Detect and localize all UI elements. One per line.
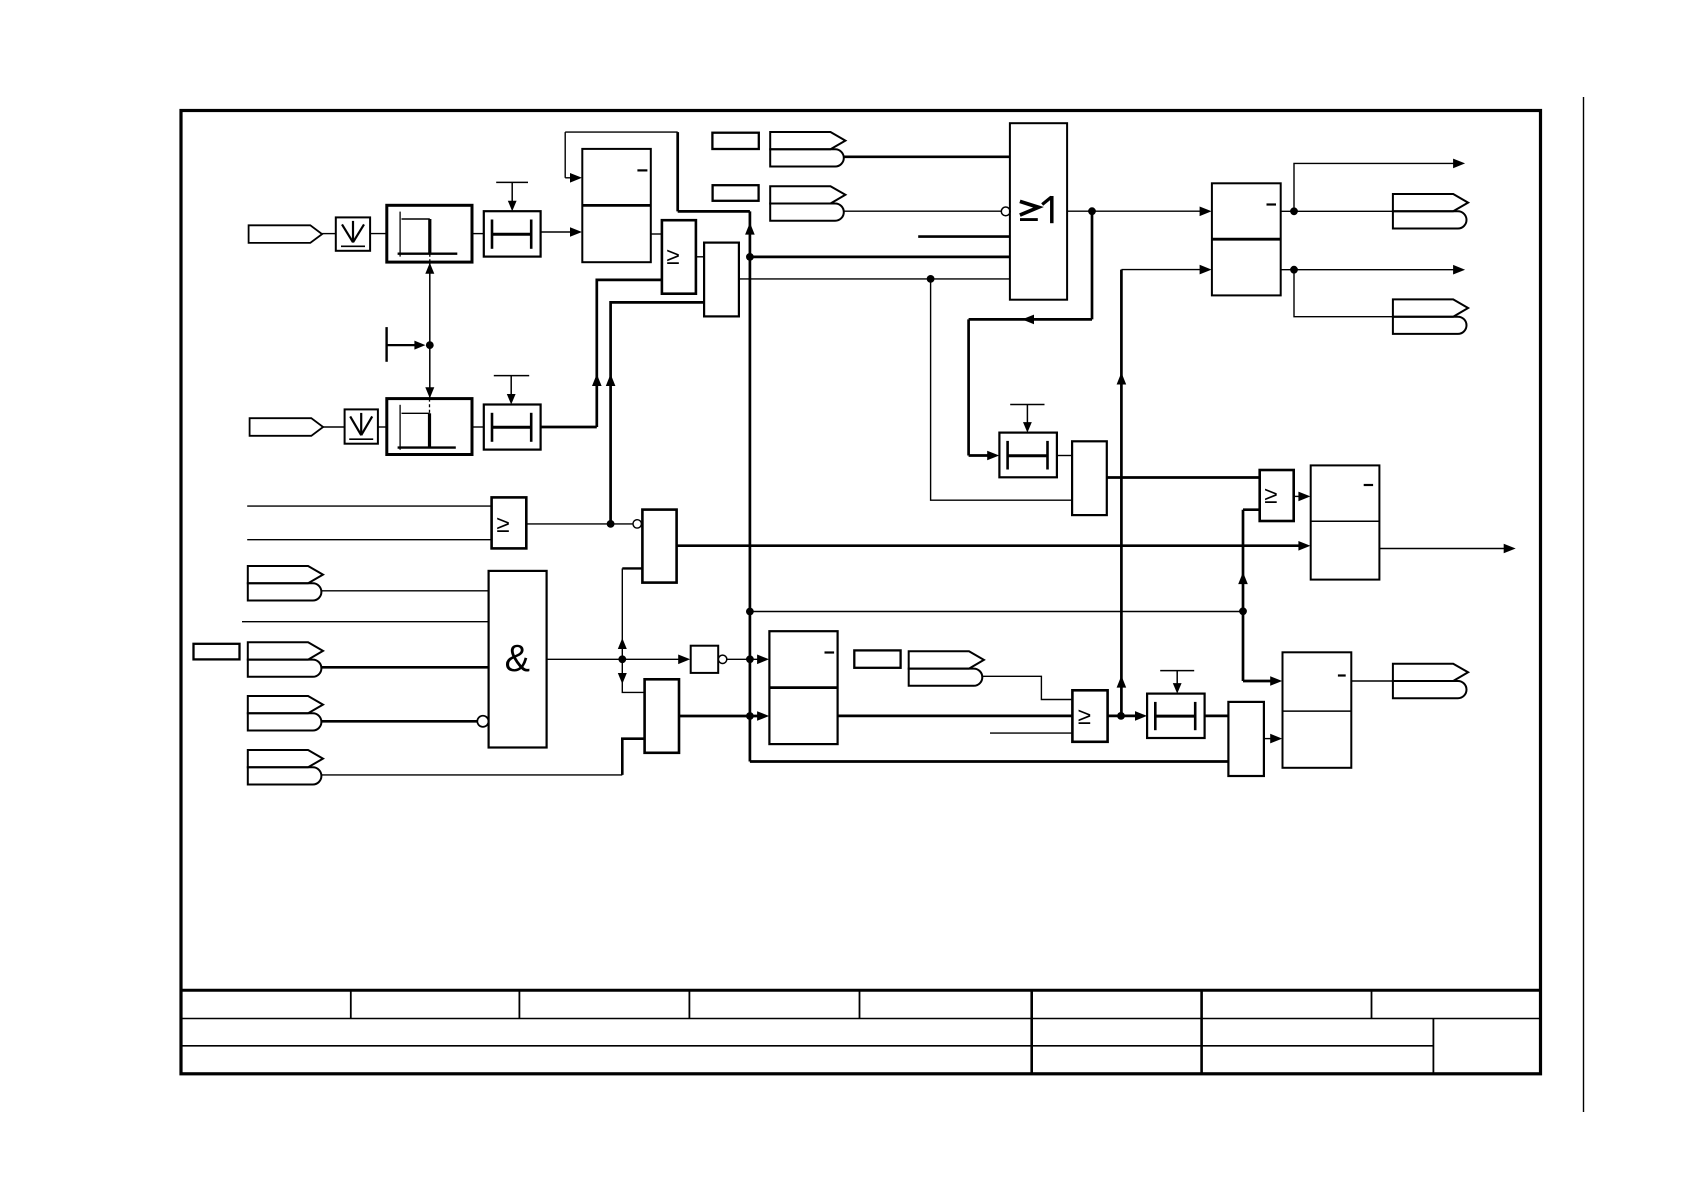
output flag A bbox=[1393, 194, 1468, 211]
wire feedback riser x968 down bbox=[967, 319, 970, 455]
threshold box 2 baseline bbox=[398, 446, 456, 448]
input flag A bbox=[770, 132, 845, 149]
input tag X2 bbox=[250, 418, 324, 436]
junction dot step link bbox=[426, 341, 434, 349]
timer T3 setting input bbox=[1010, 404, 1044, 406]
wire edge detector 1 to threshold box 1 bbox=[370, 233, 387, 235]
wire gate D output row 546 long bbox=[677, 544, 1304, 547]
timer T2 setting input bbox=[494, 375, 529, 377]
wire V1243 top to comparator D lower input bbox=[1243, 508, 1260, 511]
output flag B bbox=[1393, 299, 1468, 316]
OR gate label bbox=[1020, 201, 1039, 215]
wire OR feedback row 319 bbox=[969, 318, 1092, 321]
wire box I output row 477 thick bbox=[1107, 476, 1260, 479]
svg-text:≥: ≥ bbox=[1078, 703, 1091, 730]
wire V1243 bottom to FF4 set input bbox=[1243, 680, 1279, 683]
net V1243 vertical thick bbox=[1242, 510, 1245, 681]
NOT gate box bbox=[691, 646, 719, 673]
timer T2 bbox=[484, 405, 541, 450]
junction dot row 524 riser x610 bbox=[607, 520, 615, 528]
wire flag mid to comparator E bbox=[982, 676, 1072, 699]
flip-flop FF3 bbox=[1311, 465, 1380, 579]
wire NOT gate to FF2 bbox=[727, 658, 765, 660]
NOT gate output circle bbox=[718, 655, 726, 663]
threshold box 1 dashed tail bbox=[429, 254, 431, 262]
title block cell divider c bbox=[688, 990, 690, 1018]
wire box B lower input from riser x610 bbox=[611, 302, 705, 524]
wire box B output row 279 bbox=[739, 278, 1010, 280]
flip-flop FF1 divider bbox=[582, 204, 651, 207]
wire AND output row 659 bbox=[547, 658, 687, 660]
net V1121 vertical thick bbox=[1120, 270, 1123, 716]
flip-flop FF2 divider bbox=[769, 686, 837, 689]
wire timer T2 output to riser bbox=[541, 426, 597, 429]
title block cell divider e thick bbox=[1030, 990, 1033, 1074]
wire V750 to OR gate G1 input 4 bbox=[750, 256, 1010, 259]
wire FF5 Qn branch down row 317 bbox=[1294, 270, 1393, 317]
wire comparator D output to FF3 bbox=[1294, 495, 1305, 497]
wire box H output to FF4 reset bbox=[1264, 738, 1278, 740]
threshold box 2 axis bbox=[399, 405, 401, 450]
inverter circle at gate D input bbox=[633, 520, 641, 528]
input flag chevron 3 bbox=[248, 696, 323, 713]
arrow up on riser x610 bbox=[606, 374, 616, 386]
inverter circle at OR gate input bbox=[1001, 207, 1010, 216]
junction dot V750 row 611 bbox=[746, 608, 754, 616]
threshold box 1 axis bbox=[399, 212, 401, 257]
comparator B1 (>=) bbox=[662, 220, 696, 294]
wire FF5 output Qn row 270 bbox=[1281, 269, 1459, 271]
wire flag A to OR gate thick bbox=[844, 155, 1010, 158]
gate D (nand) bbox=[642, 510, 676, 583]
arrow into FF3 set input bbox=[1298, 492, 1310, 502]
title block row line 2 bbox=[181, 1045, 1433, 1047]
flip-flop FF5 divider bbox=[1212, 238, 1281, 241]
threshold step box 1 bbox=[387, 205, 472, 262]
wire FF5 output Q row 211 bbox=[1281, 210, 1393, 212]
wire edge detector 2 to threshold box 2 bbox=[378, 426, 387, 428]
wire riser down to box E upper input bbox=[622, 659, 644, 692]
arrow up on riser x596 bbox=[592, 374, 602, 386]
arrow into FF4 set input bbox=[1270, 676, 1282, 686]
svg-text:&: & bbox=[505, 638, 530, 680]
wire V750 bottom corner to box H lower input bbox=[750, 760, 1229, 763]
junction dot V750 row 716 bbox=[746, 712, 754, 720]
inverter circle at AND gate input bbox=[477, 716, 488, 727]
wire row 611 from V750 to V1243 bbox=[750, 611, 1243, 613]
flip-flop FF4 bbox=[1283, 652, 1352, 768]
arrow into FF4 reset input bbox=[1270, 734, 1282, 744]
title block separator line bbox=[181, 989, 1541, 992]
AND gate F bbox=[489, 571, 547, 748]
title block cell divider b bbox=[518, 990, 520, 1018]
svg-text:≥: ≥ bbox=[496, 511, 509, 538]
wire FF3 output row 548 bbox=[1379, 548, 1509, 550]
flip-flop FF5 bbox=[1212, 183, 1281, 295]
wire FF1 feedback segment left vertical bbox=[564, 132, 566, 178]
label rect B bbox=[713, 185, 759, 201]
flip-flop FF2 minus marker bbox=[825, 651, 835, 653]
comparator C (>=) bbox=[492, 497, 527, 548]
wire gate D lower input bbox=[622, 567, 642, 569]
input flag B bbox=[770, 186, 845, 203]
box E bbox=[645, 679, 679, 753]
wire threshold box 1 to timer T1 bbox=[472, 233, 484, 235]
threshold box 2 step level bbox=[402, 412, 430, 414]
junction dot V750 row 659 bbox=[746, 655, 754, 663]
OR gate G1 bbox=[1010, 123, 1067, 300]
title block row line 1 bbox=[181, 1018, 1541, 1020]
wire riser x596 up to comparator B1 input 2 bbox=[597, 280, 662, 427]
flip-flop FF2 bbox=[769, 631, 837, 744]
junction dot FF5 Q bbox=[1290, 207, 1298, 215]
wire OR feedback vertical x1090 bbox=[1091, 211, 1094, 319]
wire threshold box 2 to timer T2 bbox=[472, 426, 484, 428]
junction dot box B output bbox=[927, 275, 935, 283]
wire timer T1 to flip-flop FF1 reset bbox=[541, 231, 571, 233]
flip-flop FF3 minus marker bbox=[1364, 484, 1373, 486]
flip-flop FF1 minus marker bbox=[637, 169, 647, 171]
label rect A bbox=[712, 133, 758, 149]
wire comparator B1 to box B bbox=[696, 256, 704, 258]
wire timer T3 to box I bbox=[1057, 455, 1072, 457]
wire timer T4 to box H bbox=[1205, 715, 1229, 718]
stub input line row 733 bbox=[990, 732, 1072, 734]
junction dot V750 row 257 bbox=[746, 253, 754, 261]
input flag chevron 2 bbox=[248, 642, 323, 659]
edge detector 1 (falling edge) bbox=[336, 217, 370, 250]
arrow down on riser to box E bbox=[618, 673, 627, 684]
wire comparator E output row 716 bbox=[1108, 715, 1143, 718]
flip-flop FF1 bbox=[582, 149, 651, 262]
svg-text:≥: ≥ bbox=[1264, 482, 1277, 509]
box H bbox=[1228, 702, 1264, 776]
threshold box 1 step drop bbox=[428, 219, 431, 254]
arrow up on net V750 bbox=[745, 223, 755, 235]
wire FF4 output row 681 bbox=[1351, 680, 1393, 682]
wire tag X2 to edge detector 2 bbox=[323, 426, 345, 428]
arrow into FF5 set input bbox=[1200, 207, 1212, 217]
wire FF1 feedback row 211 to net V750 bbox=[678, 210, 750, 213]
wire chevron 3 to AND inverter circle thick bbox=[321, 720, 477, 723]
junction dot comparator E output bbox=[1117, 712, 1125, 720]
stub input line row 540 bbox=[247, 539, 491, 541]
arrow into step box 2 bbox=[425, 387, 434, 398]
flip-flop FF4 minus marker bbox=[1338, 674, 1346, 676]
threshold step box 2 bbox=[387, 399, 472, 455]
wire OR output row 211 bbox=[1067, 210, 1207, 212]
wire parameter bar to junction bbox=[387, 344, 420, 346]
arrow into FF2 set input bbox=[757, 655, 769, 665]
timer T1 setting input bbox=[496, 181, 528, 183]
wire chevron 1 to AND gate bbox=[321, 590, 489, 592]
flip-flop FF1 set input arrow bbox=[570, 173, 582, 183]
diagram outer border frame bbox=[181, 111, 1541, 1074]
comparator D (>=) bbox=[1260, 470, 1294, 521]
wire FF5 Q branch up row 163 bbox=[1294, 163, 1459, 211]
timer T4 setting input bbox=[1160, 670, 1194, 672]
label rect mid bbox=[854, 650, 900, 667]
title block cell divider d bbox=[859, 990, 861, 1018]
title block cell divider f thick bbox=[1200, 990, 1203, 1074]
arrow up on V1243 bbox=[1238, 572, 1248, 584]
wire flag B to OR inverter circle bbox=[844, 210, 1003, 212]
page margin line right bbox=[1583, 97, 1585, 1112]
gate D lower input riser bbox=[621, 568, 623, 659]
threshold box 2 step drop bbox=[428, 413, 431, 447]
comparator E (>=) bbox=[1072, 690, 1107, 742]
edge detector 2 (falling edge) bbox=[345, 409, 378, 443]
wire FF1 feedback stub to set bbox=[565, 177, 571, 179]
junction dot FF5 Qn bbox=[1290, 266, 1298, 274]
arrow output row 270 bbox=[1453, 265, 1465, 275]
timer T1 bbox=[484, 211, 541, 256]
wire FF2 output row 716 to comparator E bbox=[838, 715, 1073, 718]
wire V1121 top to FF5 reset bbox=[1121, 269, 1207, 271]
output flag C bbox=[1393, 664, 1468, 681]
wire step link vertical bbox=[429, 263, 431, 398]
wire FF1 feedback segment top bbox=[565, 131, 678, 133]
title block cell divider g bbox=[1371, 990, 1373, 1018]
input flag chevron 1 bbox=[248, 566, 323, 583]
wire FF1 feedback vertical thick bbox=[676, 132, 679, 211]
input tag X1 bbox=[249, 225, 323, 243]
arrow into NOT gate bbox=[678, 655, 690, 665]
junction dot row 611 at V1243 bbox=[1239, 607, 1247, 615]
arrow up on gate D riser bbox=[618, 638, 627, 649]
flip-flop FF5 minus marker bbox=[1267, 203, 1277, 205]
wire feedback into timer T3 bbox=[969, 454, 996, 457]
junction dot OR output bbox=[1088, 207, 1096, 215]
title block cell divider a bbox=[350, 990, 352, 1018]
title block cell divider h bbox=[1432, 1019, 1434, 1074]
net V750 vertical bbox=[749, 211, 752, 761]
stub input line row 622 bbox=[242, 621, 489, 623]
wire tag X1 to edge detector bbox=[322, 233, 336, 235]
timer T3 bbox=[999, 433, 1057, 478]
arrow left on feedback row 319 bbox=[1022, 315, 1034, 325]
wire chevron 2 to AND gate thick bbox=[321, 666, 489, 669]
box B bbox=[704, 243, 739, 317]
label rect mid-left bbox=[194, 644, 240, 660]
input flag chevron 4 bbox=[248, 750, 323, 767]
wire chevron 4 row 775 bbox=[321, 774, 622, 776]
arrow into timer T4 bbox=[1135, 711, 1147, 721]
input flag mid bbox=[909, 651, 984, 668]
threshold box 2 dashed head bbox=[429, 399, 431, 414]
arrow into FF5 reset input bbox=[1200, 265, 1212, 275]
arrow into timer T3 bbox=[987, 451, 999, 461]
timer T4 bbox=[1147, 694, 1205, 738]
box I bbox=[1072, 441, 1107, 515]
wire box I lower input from net V931 bbox=[931, 279, 1073, 500]
flip-flop FF3 divider bbox=[1311, 520, 1380, 522]
arrow up on V1121 lower bbox=[1117, 676, 1127, 688]
arrow output row 163 bbox=[1453, 159, 1465, 169]
stub input line row 506 bbox=[247, 505, 491, 507]
junction dot AND output riser bbox=[618, 655, 626, 663]
wire chevron4 riser to box E lower input bbox=[622, 739, 644, 775]
svg-text:≥: ≥ bbox=[666, 243, 679, 270]
arrow into flip-flop FF3 lower input bbox=[1298, 541, 1310, 551]
parameter bar between step boxes bbox=[385, 327, 387, 362]
threshold box 1 step level bbox=[402, 218, 430, 220]
wire FF1 output to comparator B1 bbox=[651, 233, 662, 235]
arrow into FF2 reset input bbox=[757, 711, 769, 721]
arrow output row 548 bbox=[1504, 544, 1516, 554]
threshold box 1 baseline bbox=[398, 252, 458, 254]
arrow up on V1121 upper bbox=[1117, 373, 1127, 385]
wire box E output row 716 bbox=[679, 715, 765, 718]
wire comparator C output bbox=[526, 523, 633, 525]
arrow into step box 1 bbox=[425, 263, 434, 274]
flip-flop FF4 divider bbox=[1283, 710, 1352, 712]
stub input line row 237 bbox=[918, 235, 1010, 238]
